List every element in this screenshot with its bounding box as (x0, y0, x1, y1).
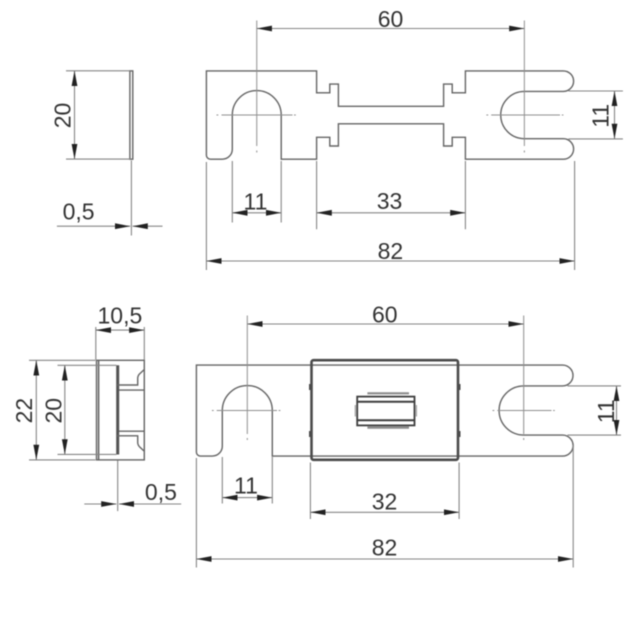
centerline horizontal through right fork (top view) (486, 114, 563, 116)
housing left wall inner line (98, 360, 100, 460)
housing latch tab top-left (309, 384, 311, 390)
inspection window thick top bar (357, 401, 414, 403)
svg-text:11: 11 (234, 473, 258, 499)
window gray cap above (367, 392, 409, 394)
housing bottom inner step (117, 436, 144, 452)
dimension 11 right fork (bottom view, vertical) with extension lines (568, 386, 622, 435)
dimension 11 left slot (bottom view) with extension lines (222, 457, 272, 504)
dimension 20 (side view) with extension lines (58, 365, 117, 454)
centerline horizontal through left slot (top view) (217, 114, 296, 116)
dimension 82 (top view) with extension lines (206, 161, 574, 270)
strip edge-on (thin bar) (130, 71, 133, 159)
dimension 32 (bottom view) with extension lines (310, 463, 459, 520)
inspection window thick bottom bar (357, 419, 414, 421)
centerline vertical through left slot (top view) (256, 21, 258, 153)
fuse strip outline (top view) (206, 71, 573, 159)
centerline vertical through right fork (top view) (523, 21, 525, 153)
dimension 11 right fork (top view, vertical) with extension lines (568, 91, 623, 139)
window side tick right (415, 405, 417, 417)
svg-text:22: 22 (11, 398, 37, 424)
window side tick left (354, 405, 356, 417)
svg-text:0,5: 0,5 (145, 479, 177, 505)
dimension 60 (bottom view) (247, 323, 523, 325)
dimension 82 (bottom view) with extension lines (196, 445, 573, 568)
dimension 11 left slot (top view) with extension lines (232, 161, 281, 223)
housing top inner step (117, 370, 144, 386)
svg-text:11: 11 (593, 399, 619, 423)
fuse strip edge-on (dark bar) (116, 365, 119, 454)
svg-text:20: 20 (50, 103, 76, 129)
fuse strip outline (bottom plan view) (196, 365, 573, 456)
svg-text:10,5: 10,5 (98, 303, 143, 329)
svg-text:82: 82 (372, 535, 398, 561)
housing inner horizontal lower (119, 430, 144, 432)
svg-text:20: 20 (40, 398, 66, 424)
svg-text:11: 11 (244, 189, 268, 215)
dimension 33 (top view) with extension lines (317, 161, 466, 229)
housing body (bottom plan view) (312, 360, 459, 460)
centerline horizontal through right fork (bottom view) (493, 410, 555, 412)
dimension 22 (side view) with extension lines (29, 360, 96, 460)
extension line below bar (for 0,5) (130, 161, 132, 236)
svg-text:82: 82 (378, 238, 404, 264)
housing latch tab bottom-right (458, 431, 460, 437)
svg-text:60: 60 (378, 6, 404, 32)
dimension 10,5 (side view) with extension lines (96, 327, 145, 360)
centerline horizontal through left slot (bottom view) (212, 410, 281, 412)
inspection window outer rect (357, 397, 414, 426)
centerline vertical through right fork (bottom view) (523, 316, 525, 441)
housing latch tab bottom-left (309, 431, 311, 437)
svg-text:0,5: 0,5 (63, 199, 95, 225)
centerline vertical through left slot (bottom view) (246, 316, 248, 441)
dimension 0,5 (side view, converging arrows) (57, 225, 130, 227)
housing inner horizontal upper (119, 389, 144, 391)
dimension 60 (top view) (257, 28, 525, 30)
dimension 20 (side view) with extension lines (66, 71, 130, 159)
svg-text:32: 32 (372, 488, 398, 514)
svg-text:33: 33 (377, 188, 403, 214)
extension line below strip (for 0,5) (117, 461, 119, 512)
svg-text:60: 60 (372, 302, 398, 328)
window gray cap below (367, 427, 409, 429)
housing latch tab top-right (458, 384, 460, 390)
housing outer rectangle (side view) (97, 360, 145, 460)
dimension 0,5 (side view, converging arrows) (84, 503, 116, 505)
svg-text:11: 11 (588, 104, 614, 128)
